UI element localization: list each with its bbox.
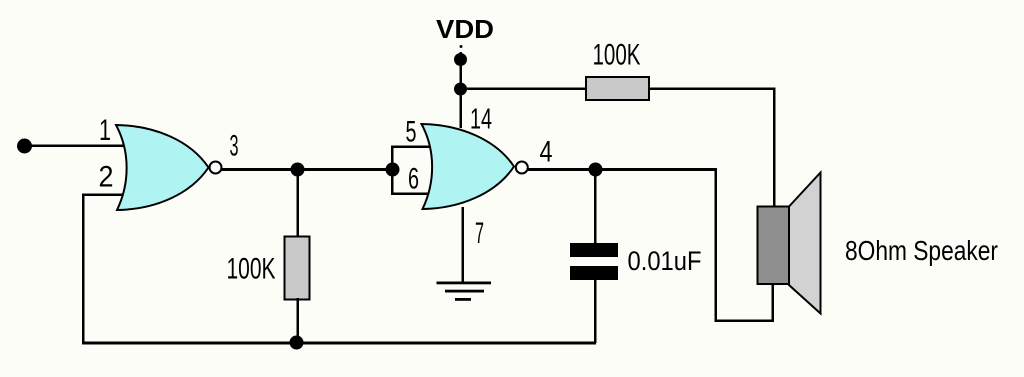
NOR gate 2 output bubble [516,162,528,174]
input terminal dot [17,139,32,154]
junction node capacitor top [589,163,603,177]
wire gate2 pin6 stub [391,193,433,196]
wire gate2 pin7 to ground [462,207,465,283]
VDD terminal dot [454,53,467,66]
wire feedback vertical left [82,194,85,344]
wire capacitor top vertical [594,170,597,244]
wire gate2 input tie vertical [391,146,394,195]
svg-text:0.01uF: 0.01uF [628,246,702,276]
wire resistor R2 bottom [297,298,300,343]
svg-text:2: 2 [99,161,114,194]
NOR gate 1 output bubble [210,162,222,174]
wire gate2 output to right [527,168,717,171]
wire input to gate1 pin1 [24,145,124,148]
wire gate1 pin2 stub [82,194,124,197]
svg-text:8Ohm Speaker: 8Ohm Speaker [845,235,998,266]
ground symbol [437,282,492,301]
NOR gate 2 body [422,124,515,209]
svg-text:VDD: VDD [436,14,494,44]
wire resistor R1 to speaker top corner [649,88,775,91]
svg-text:6: 6 [408,163,419,196]
svg-text:100K: 100K [593,39,641,72]
junction node gate1 output [291,163,305,177]
svg-text:1: 1 [99,114,111,147]
junction node VDD rail [454,83,467,96]
VDD terminal tiny dot [460,45,463,48]
resistor R1 100K horizontal [586,77,649,100]
wire gate2 pin5 stub [391,146,433,149]
speaker cone [789,173,821,314]
junction node gate2 inputs [386,163,400,177]
wire bottom horizontal [82,342,596,345]
svg-text:5: 5 [406,116,417,149]
svg-text:4: 4 [540,136,553,169]
svg-text:14: 14 [470,104,492,136]
svg-text:100K: 100K [227,253,276,286]
wire speaker bottom horizontal [715,320,774,323]
capacitor C1 plates [570,243,618,280]
wire gate1 output to gate2 input [220,168,393,171]
NOR gate 1 body [116,125,209,210]
wire speaker top vertical [773,88,776,208]
wire junction to resistor R2 top [297,169,300,238]
wire output down right side [715,169,718,322]
svg-text:7: 7 [475,217,484,250]
wire VDD rail to resistor R1 [460,88,586,91]
wire capacitor bottom vertical [594,279,597,343]
svg-text:3: 3 [230,130,239,163]
wire gate2 pin14 to VDD [460,52,463,128]
wire speaker bottom vertical [772,283,775,322]
junction node bottom wire [290,336,304,350]
speaker driver body [758,207,790,285]
resistor R2 100K vertical [285,237,310,300]
